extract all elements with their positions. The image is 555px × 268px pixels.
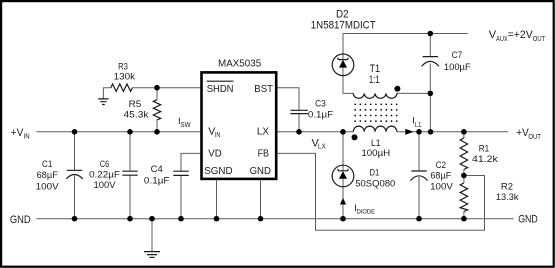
svg-text:C4: C4: [151, 164, 163, 175]
svg-text:OUT: OUT: [533, 34, 546, 43]
svg-text:=+2V: =+2V: [508, 29, 534, 41]
svg-text:IN: IN: [24, 132, 30, 141]
svg-text:LX: LX: [318, 142, 326, 151]
svg-text:R2: R2: [501, 181, 513, 192]
svg-text:SGND: SGND: [204, 165, 233, 177]
svg-text:GND: GND: [250, 165, 272, 177]
svg-text:BST: BST: [254, 83, 273, 95]
svg-text:1:1: 1:1: [369, 74, 380, 86]
svg-text:+V: +V: [11, 127, 24, 139]
svg-text:GND: GND: [10, 214, 31, 226]
svg-text:SW: SW: [180, 120, 191, 129]
svg-text:0.1µF: 0.1µF: [144, 175, 170, 186]
svg-text:VD: VD: [208, 147, 222, 159]
svg-text:0.1µF: 0.1µF: [308, 109, 333, 120]
svg-text:0.22µF: 0.22µF: [89, 169, 120, 180]
svg-text:50SQ080: 50SQ080: [355, 178, 395, 189]
svg-text:130k: 130k: [114, 71, 136, 82]
svg-text:T1: T1: [369, 63, 380, 75]
svg-text:100V: 100V: [94, 180, 117, 191]
svg-text:OUT: OUT: [528, 132, 541, 141]
svg-text:GND: GND: [518, 213, 538, 225]
svg-text:41.2k: 41.2k: [472, 154, 498, 165]
svg-text:45.3k: 45.3k: [124, 110, 149, 121]
svg-text:C7: C7: [452, 50, 463, 61]
svg-text:C6: C6: [100, 159, 110, 170]
svg-text:L1: L1: [415, 120, 422, 129]
svg-text:68µF: 68µF: [37, 170, 59, 181]
svg-text:1N5817MDICT: 1N5817MDICT: [311, 19, 376, 31]
svg-text:13.3k: 13.3k: [496, 192, 519, 203]
svg-text:R1: R1: [479, 143, 490, 154]
svg-text:R5: R5: [129, 99, 142, 110]
svg-text:D1: D1: [370, 167, 380, 178]
svg-text:DIODE: DIODE: [357, 208, 376, 215]
svg-text:MAX5035: MAX5035: [218, 57, 261, 69]
svg-text:IN: IN: [215, 130, 221, 139]
svg-text:C2: C2: [436, 160, 446, 171]
svg-text:FB: FB: [258, 147, 269, 159]
svg-text:100µF: 100µF: [444, 62, 471, 73]
svg-text:C1: C1: [42, 159, 52, 170]
svg-text:68µF: 68µF: [430, 170, 451, 181]
svg-text:100V: 100V: [430, 182, 453, 193]
svg-text:LX: LX: [257, 126, 269, 138]
svg-text:C3: C3: [315, 98, 326, 109]
svg-text:100µH: 100µH: [361, 148, 390, 159]
svg-text:AUX: AUX: [496, 34, 508, 43]
svg-text:SHDN: SHDN: [207, 83, 234, 95]
svg-text:100V: 100V: [36, 182, 60, 193]
